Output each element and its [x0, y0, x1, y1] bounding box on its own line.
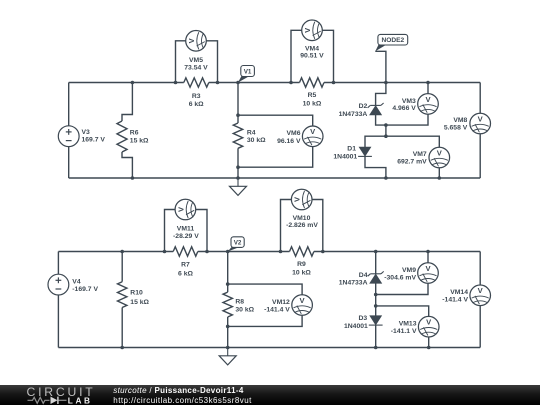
wire left branch lower (V4 bottom lead) — [57, 295, 59, 348]
wire bottom rail (bottom circuit) — [58, 347, 480, 349]
junction R4/VM6 top — [236, 113, 240, 117]
svg-text:LAB: LAB — [68, 395, 93, 405]
wire VM5 left leg — [176, 41, 186, 83]
svg-text:-304.6 mV: -304.6 mV — [384, 274, 416, 281]
logo resistor zigzag glyph — [28, 397, 50, 403]
junction D4 rail — [374, 250, 378, 254]
svg-text:-2.826 mV: -2.826 mV — [286, 222, 318, 229]
junction D1/VM7 — [384, 134, 388, 138]
wire left branch upper (V3 top lead) — [68, 83, 70, 126]
junction VM4 left — [289, 81, 293, 85]
svg-text:96.16 V: 96.16 V — [277, 138, 301, 145]
voltmeter VM6 — [302, 126, 323, 147]
voltmeter VM12 — [292, 295, 313, 316]
svg-text:V2: V2 — [234, 240, 242, 247]
wire top rail middle segment (top circuit) — [209, 82, 300, 84]
resistor R6 — [117, 121, 127, 152]
svg-text:V4: V4 — [72, 279, 81, 286]
voltmeter VM4 — [302, 20, 323, 41]
resistor R5 — [300, 78, 325, 87]
svg-text:VM11: VM11 — [177, 225, 195, 232]
junction VM5 left — [174, 81, 178, 85]
wire R8 branch bottom — [227, 317, 229, 348]
svg-text:10 kΩ: 10 kΩ — [303, 101, 322, 108]
svg-text:D4: D4 — [359, 272, 368, 279]
junction R8/VM12 top — [226, 282, 230, 286]
svg-text:6 kΩ: 6 kΩ — [178, 270, 193, 277]
junction R10 bottom — [120, 346, 124, 350]
svg-text:10 kΩ: 10 kΩ — [292, 270, 311, 277]
wire VM6 top leg — [238, 115, 313, 126]
junction R8/VM12 bottom — [226, 325, 230, 329]
voltmeter VM9 — [418, 263, 439, 284]
wire VM3 top leg — [427, 83, 429, 94]
svg-text:VM10: VM10 — [293, 215, 311, 222]
wire D4 branch bottom — [375, 283, 377, 294]
junction VM13 bottom rail — [427, 346, 431, 350]
svg-text:R10: R10 — [130, 289, 143, 296]
wire VM12 bottom leg — [228, 315, 302, 326]
junction VM10 right — [321, 250, 325, 254]
wire R6 branch bottom — [122, 152, 132, 178]
svg-text:1N4001: 1N4001 — [333, 154, 357, 161]
wire VM4 left leg — [291, 30, 302, 82]
svg-text:D3: D3 — [358, 315, 367, 322]
resistor R4 — [233, 123, 242, 148]
wire D1 branch bottom — [365, 156, 386, 178]
junction node V2 — [226, 250, 230, 254]
wire D-branch middle (bottom circuit) — [375, 295, 377, 306]
svg-text:-169.7 V: -169.7 V — [72, 286, 98, 293]
wire top rail left segment (bottom circuit) — [58, 251, 173, 253]
wire VM5 right leg — [206, 41, 217, 83]
wire D3 branch top — [375, 306, 377, 316]
svg-text:15 kΩ: 15 kΩ — [130, 299, 149, 306]
svg-text:VM12: VM12 — [272, 299, 290, 306]
svg-text:1N4001: 1N4001 — [344, 323, 368, 330]
node flag V2 — [228, 247, 240, 252]
wire VM11 left leg — [165, 210, 176, 252]
logo diode glyph — [51, 396, 58, 403]
svg-text:30 kΩ: 30 kΩ — [247, 137, 266, 144]
wire VM13 top leg — [376, 306, 429, 317]
svg-text:R4: R4 — [247, 130, 256, 137]
voltmeter VM8 — [470, 113, 491, 134]
wire D4 branch top — [375, 252, 377, 274]
wire D1 branch top — [365, 136, 386, 147]
svg-text:VM7: VM7 — [413, 151, 427, 158]
diode D1 — [359, 147, 370, 156]
svg-text:90.51 V: 90.51 V — [300, 53, 324, 60]
wire VM9 top leg — [427, 252, 429, 263]
wire bottom rail (top circuit) — [69, 177, 481, 179]
svg-text:R8: R8 — [235, 299, 244, 306]
svg-text:sturcotte / Puissance-Devoir11: sturcotte / Puissance-Devoir11-4 — [113, 385, 244, 394]
ground (bottom circuit) — [227, 348, 229, 356]
junction VM11 right — [205, 250, 209, 254]
voltmeter VM11 — [175, 199, 196, 220]
junction R6 top — [131, 81, 135, 85]
wire R4 branch top — [237, 83, 239, 124]
wire D2 branch bottom — [376, 115, 386, 125]
svg-text:169.7 V: 169.7 V — [82, 137, 106, 144]
wire VM14 top leg — [479, 252, 481, 286]
junction VM3 top rail — [426, 81, 430, 85]
wire VM6 bottom leg — [238, 147, 313, 168]
junction VM7 bottom rail — [438, 176, 442, 180]
svg-text:V1: V1 — [244, 68, 252, 75]
wire VM9 bottom leg — [376, 283, 428, 294]
svg-text:R9: R9 — [297, 261, 306, 268]
svg-text:VM5: VM5 — [189, 57, 203, 64]
svg-text:-28.29 V: -28.29 V — [173, 233, 199, 240]
voltmeter VM14 — [470, 285, 491, 306]
svg-text:73.54 V: 73.54 V — [184, 65, 208, 72]
wire VM13 bottom leg — [428, 337, 430, 348]
svg-text:D2: D2 — [359, 103, 368, 110]
junction R8 bottom rail — [226, 346, 230, 350]
svg-text:VM8: VM8 — [453, 117, 467, 124]
svg-text:1N4733A: 1N4733A — [339, 111, 368, 118]
wire VM7 top leg — [386, 136, 439, 147]
wire left branch lower (V3 bottom lead) — [68, 147, 70, 179]
wire VM10 right leg — [312, 200, 323, 252]
resistor R10 — [118, 282, 127, 308]
wire VM11 right leg — [196, 210, 207, 252]
ground (top circuit) — [237, 178, 239, 186]
wire VM12 top leg — [228, 284, 302, 295]
svg-text:5.658 V: 5.658 V — [444, 124, 468, 131]
junction node V1 — [236, 81, 240, 85]
svg-text:http://circuitlab.com/c53k6s5s: http://circuitlab.com/c53k6s5sr8vut — [113, 395, 252, 404]
wire left branch upper (V4 top lead) — [57, 252, 59, 275]
junction R4/VM6 bottom — [236, 165, 240, 169]
svg-text:VM6: VM6 — [287, 130, 301, 137]
wire top rail middle segment (bottom circuit) — [198, 251, 290, 253]
wire top rail right segment (bottom circuit) — [314, 251, 480, 253]
zener diode D2 — [370, 104, 381, 106]
wire D2 branch top — [376, 83, 386, 106]
resistor R3 — [184, 78, 209, 87]
voltage source V3 — [58, 126, 79, 147]
voltmeter VM5 — [186, 30, 207, 51]
svg-text:VM4: VM4 — [305, 45, 319, 52]
svg-text:V3: V3 — [82, 129, 91, 136]
voltage source V4 — [48, 274, 69, 295]
wire D-branch middle — [385, 125, 387, 136]
svg-text:D1: D1 — [347, 146, 356, 153]
voltmeter VM13 — [418, 316, 439, 337]
wire NODE2 to rail — [375, 51, 386, 82]
svg-text:15 kΩ: 15 kΩ — [130, 138, 149, 145]
svg-text:VM14: VM14 — [450, 289, 468, 296]
resistor R8 — [223, 292, 232, 317]
voltmeter VM7 — [429, 147, 450, 168]
junction NODE2 rail — [384, 81, 388, 85]
junction VM5 right — [216, 81, 220, 85]
svg-text:-141.4 V: -141.4 V — [264, 306, 290, 313]
svg-text:VM13: VM13 — [399, 321, 417, 328]
junction D1 bottom rail — [384, 176, 388, 180]
node flag V1 — [238, 76, 249, 83]
junction R6 bottom — [131, 176, 135, 180]
svg-text:R7: R7 — [181, 262, 190, 269]
svg-text:-141.1 V: -141.1 V — [391, 328, 417, 335]
svg-text:30 kΩ: 30 kΩ — [235, 307, 254, 314]
resistor R9 — [290, 247, 314, 256]
zener diode D4 — [370, 273, 381, 275]
junction R10 top — [120, 250, 124, 254]
wire R10 branch bottom — [121, 308, 123, 348]
wire VM8 top leg — [479, 83, 481, 114]
wire VM4 right leg — [322, 30, 333, 82]
voltmeter VM10 — [291, 189, 312, 210]
svg-text:4.966 V: 4.966 V — [392, 105, 416, 112]
wire R8 branch top — [227, 252, 229, 293]
wire VM14 bottom leg — [479, 306, 481, 348]
svg-text:R3: R3 — [192, 93, 201, 100]
svg-text:1N4733A: 1N4733A — [339, 280, 368, 287]
wire top rail right segment (top circuit) — [324, 82, 480, 84]
svg-text:6 kΩ: 6 kΩ — [189, 101, 204, 108]
svg-text:-141.4 V: -141.4 V — [442, 297, 468, 304]
junction D3 bottom rail — [374, 346, 378, 350]
junction VM4 right — [332, 81, 336, 85]
wire R4 branch bottom — [237, 148, 239, 178]
node flag NODE2 — [375, 45, 386, 52]
resistor R7 — [173, 247, 198, 256]
wire VM7 bottom leg — [438, 168, 440, 178]
wire VM3 bottom leg — [386, 114, 428, 125]
junction D3/VM13 — [374, 304, 378, 308]
svg-text:R5: R5 — [308, 92, 317, 99]
svg-text:VM3: VM3 — [402, 98, 416, 105]
wire R10 branch top — [121, 252, 123, 282]
junction R4 bottom rail — [236, 176, 240, 180]
junction VM11 left — [163, 250, 167, 254]
wire VM10 left leg — [281, 200, 292, 252]
junction D4/VM9 — [374, 293, 378, 297]
wire top rail left segment (top circuit) — [69, 82, 184, 84]
svg-text:R6: R6 — [130, 130, 139, 137]
svg-text:692.7 mV: 692.7 mV — [397, 158, 427, 165]
svg-text:NODE2: NODE2 — [381, 37, 404, 44]
voltmeter VM3 — [418, 94, 439, 115]
junction VM10 left — [279, 250, 283, 254]
junction VM9 top rail — [426, 250, 430, 254]
svg-text:VM9: VM9 — [402, 267, 416, 274]
wire VM8 bottom leg — [479, 134, 481, 178]
diode D3 — [370, 316, 381, 325]
wire D3 branch bottom — [375, 325, 377, 347]
junction D2/VM3 — [384, 123, 388, 127]
wire R6 branch top — [122, 83, 132, 122]
